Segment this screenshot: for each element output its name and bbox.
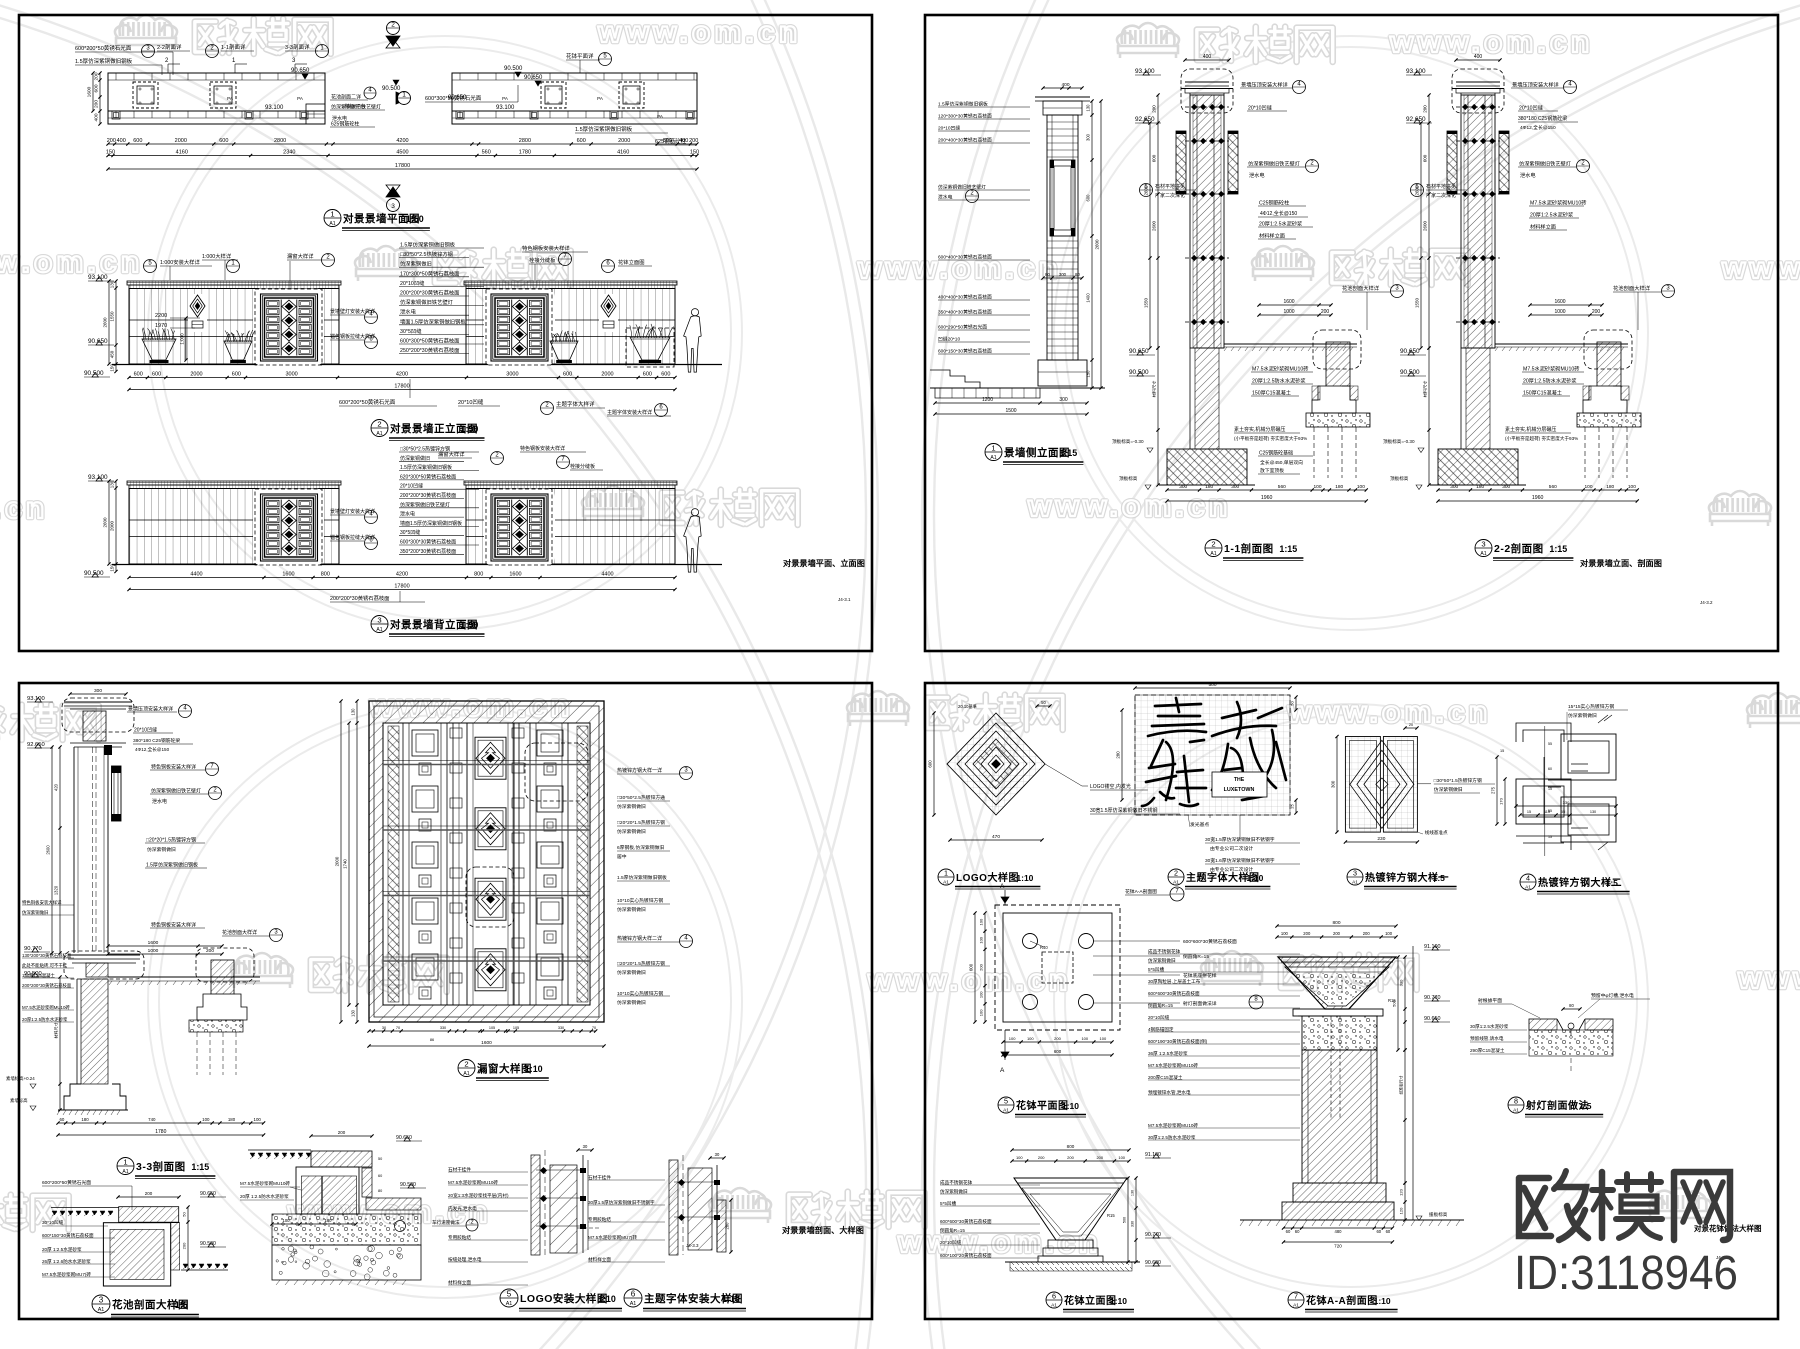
- svg-text:PA: PA: [657, 114, 663, 119]
- BL louver window outer frame: [369, 701, 604, 1022]
- BR flowerpot section A-A bottom dims: [1284, 1227, 1393, 1229]
- svg-text:C25钢筋砼柱: C25钢筋砼柱: [1259, 199, 1289, 207]
- BL 3-3 foundation stem: [81, 979, 108, 1084]
- svg-text:500: 500: [1208, 682, 1216, 688]
- svg-text:150: 150: [106, 150, 115, 156]
- svg-text:仿深紫铜做旧: 仿深紫铜做旧: [147, 846, 176, 853]
- section 1-1 planter top dims: [1259, 304, 1331, 306]
- TL back elevation left wall: [127, 481, 341, 485]
- svg-text:2600: 2600: [46, 845, 51, 855]
- svg-text:LUXETOWN: LUXETOWN: [1224, 787, 1255, 793]
- svg-text:顶板标高: 顶板标高: [1390, 475, 1409, 482]
- TL back elev window left: [253, 489, 324, 566]
- svg-text:600: 600: [577, 138, 586, 144]
- svg-text:130: 130: [110, 280, 115, 288]
- svg-text:80: 80: [378, 1189, 382, 1193]
- BR flowerpot elevation title: [1046, 1292, 1062, 1308]
- svg-text:200*200*30黄锈石荔枝面: 200*200*30黄锈石荔枝面: [330, 594, 389, 602]
- TR side elevation lamp panel: [1050, 160, 1075, 236]
- section 1-1 left vdims: [1157, 95, 1159, 348]
- TL plan title: [324, 210, 341, 227]
- TL front elev diamond motif right: [599, 294, 618, 332]
- svg-text:1780: 1780: [155, 1129, 166, 1135]
- TL back elevation right wall: [464, 481, 677, 485]
- svg-text:经准板尺寸: 经准板尺寸: [1399, 1075, 1404, 1094]
- TR section 1-1 title: [1205, 540, 1222, 557]
- svg-text:□30*50*2.5热镀锌方通: □30*50*2.5热镀锌方通: [617, 794, 665, 801]
- svg-text:4Φ12,全长@150: 4Φ12,全长@150: [1260, 210, 1297, 217]
- svg-text:50: 50: [182, 1212, 187, 1217]
- svg-text:墙面1.5厚仿深紫铜做旧钢板: 墙面1.5厚仿深紫铜做旧钢板: [400, 520, 462, 527]
- svg-text:6厚钢板,仿深紫铜做旧: 6厚钢板,仿深紫铜做旧: [617, 844, 664, 851]
- svg-text:100: 100: [1118, 1155, 1125, 1160]
- svg-text:A1: A1: [1480, 551, 1486, 557]
- TL plan dim row 1: [108, 143, 697, 145]
- svg-text:PA: PA: [227, 96, 233, 101]
- TL front elev person: [691, 309, 698, 316]
- svg-text:居中: 居中: [617, 853, 627, 860]
- svg-text:100: 100: [979, 991, 984, 998]
- svg-text:4500: 4500: [396, 150, 408, 156]
- svg-text:特色铜板安装大样详: 特色铜板安装大样详: [151, 764, 196, 771]
- BL theme font install title: [624, 1289, 642, 1307]
- svg-text:15: 15: [1548, 787, 1552, 791]
- svg-text:90.650: 90.650: [88, 338, 108, 345]
- svg-text:600: 600: [563, 372, 572, 378]
- svg-text:花池剖面大样详: 花池剖面大样详: [1342, 284, 1380, 292]
- section 2-2 top dim 400: [1456, 59, 1500, 61]
- BL 3-3 planter at right: [196, 948, 254, 982]
- svg-text:放下室顶板: 放下室顶板: [1260, 467, 1284, 474]
- TL back elev window right: [484, 489, 555, 566]
- svg-text:4200: 4200: [396, 372, 408, 378]
- svg-text:275: 275: [1491, 786, 1496, 794]
- TL plan section marker 1 arrow: [396, 92, 410, 104]
- TL front elev title: [371, 420, 388, 437]
- TR side elevation bottom dims: [935, 402, 1087, 404]
- BR theme font calligraphy cheng: [1222, 710, 1256, 718]
- svg-text:1:10: 1:10: [1246, 873, 1263, 883]
- watermark row D: [0, 705, 99, 740]
- svg-text:20厚1:2.5防水水泥砂浆: 20厚1:2.5防水水泥砂浆: [1252, 377, 1306, 385]
- svg-text:450: 450: [110, 350, 115, 358]
- svg-text:1:15: 1:15: [1549, 544, 1567, 554]
- svg-text:200: 200: [1333, 931, 1341, 936]
- svg-text:17800: 17800: [395, 163, 410, 169]
- svg-text:A1: A1: [463, 1071, 469, 1077]
- BR theme font calligraphy lu: [1155, 704, 1201, 706]
- svg-text:100: 100: [1357, 484, 1365, 490]
- svg-text:60: 60: [1295, 1229, 1300, 1234]
- svg-text:93.100: 93.100: [88, 474, 108, 481]
- svg-text:M7.5水泥砂浆砌MU10砖: M7.5水泥砂浆砌MU10砖: [1252, 365, 1309, 373]
- svg-text:330: 330: [1563, 800, 1570, 805]
- svg-text:120*300*30黄锈石荔枝面: 120*300*30黄锈石荔枝面: [938, 113, 992, 120]
- BL flowerbed section 3 drawing: [51, 1207, 119, 1209]
- svg-text:55: 55: [1561, 810, 1565, 814]
- svg-text:J4-3.3: J4-3.3: [686, 1243, 699, 1248]
- svg-text:A1: A1: [1525, 884, 1531, 890]
- BR spotlight dims and labels: [1563, 1008, 1580, 1010]
- svg-text:1550: 1550: [110, 311, 115, 322]
- svg-text:仿深紫铜做旧铁艺壁灯: 仿深紫铜做旧铁艺壁灯: [400, 298, 454, 306]
- BL louver title: [458, 1060, 475, 1077]
- svg-text:A: A: [1000, 883, 1005, 890]
- svg-text:600: 600: [928, 760, 933, 768]
- svg-text:对景景墙平面、立面图: 对景景墙平面、立面图: [783, 558, 865, 568]
- section 2-2 planter dashed outline: [1584, 330, 1632, 369]
- svg-text:射根據平面: 射根據平面: [1478, 997, 1502, 1004]
- svg-text:100: 100: [1009, 1036, 1016, 1041]
- svg-text:景墙压顶安装大样详: 景墙压顶安装大样详: [1512, 81, 1559, 89]
- panel border bottom-left: [19, 683, 872, 1319]
- section 2-2 planter top dims: [1530, 304, 1602, 306]
- svg-text:150: 150: [1086, 370, 1091, 378]
- section 2-2 cap plates: [1456, 81, 1500, 83]
- svg-text:200: 200: [94, 72, 100, 80]
- svg-text:100: 100: [1081, 1036, 1088, 1041]
- svg-text:50: 50: [1041, 700, 1046, 705]
- svg-text:170: 170: [1499, 797, 1504, 804]
- svg-text:2000: 2000: [190, 372, 202, 378]
- svg-text:400: 400: [1474, 54, 1483, 60]
- svg-text:290厚C15混凝土: 290厚C15混凝土: [1470, 1047, 1505, 1054]
- TR section 1-1 stone leader left: [1140, 184, 1153, 197]
- svg-text:4160: 4160: [617, 150, 629, 156]
- svg-text:200: 200: [1321, 309, 1330, 315]
- svg-text:7: 7: [1294, 1292, 1298, 1301]
- svg-text:20厚 1:2.5防水水泥砂浆: 20厚 1:2.5防水水泥砂浆: [240, 1193, 289, 1200]
- BR theme font detail box: [1135, 695, 1290, 815]
- svg-text:顶板标高=-0.30: 顶板标高=-0.30: [1383, 438, 1415, 445]
- svg-text:80: 80: [1045, 272, 1050, 277]
- svg-text:1600: 1600: [1283, 299, 1294, 305]
- svg-text:92.650: 92.650: [1135, 116, 1155, 123]
- svg-text:20厚1:2.5水泥砂浆: 20厚1:2.5水泥砂浆: [1259, 220, 1302, 228]
- svg-text:600: 600: [232, 372, 241, 378]
- svg-text:600: 600: [219, 138, 228, 144]
- svg-text:180: 180: [1205, 484, 1213, 490]
- BL louver left motif chain 2: [452, 723, 454, 1005]
- svg-text:92.650: 92.650: [1406, 116, 1426, 123]
- svg-text:115: 115: [1544, 810, 1550, 814]
- TL plan right wall pilaster marks: [456, 111, 464, 119]
- svg-text:600: 600: [969, 963, 974, 971]
- BL 3-3 footing: [64, 1084, 126, 1110]
- svg-text:1.5厚仿深紫铜做旧钢板: 1.5厚仿深紫铜做旧钢板: [75, 57, 133, 65]
- svg-text:全长@450,单层双向: 全长@450,单层双向: [1260, 459, 1303, 466]
- BR big watermark logo mo: [1599, 1172, 1606, 1238]
- svg-text:1970: 1970: [155, 323, 167, 329]
- svg-text:100: 100: [979, 918, 984, 925]
- svg-text:5: 5: [1004, 1097, 1008, 1106]
- svg-text:对景景墙立面、剖面图: 对景景墙立面、剖面图: [1580, 558, 1662, 568]
- BL flowerbed section 4 labels: [311, 1135, 372, 1137]
- svg-text:主题字体大样详: 主题字体大样详: [556, 400, 595, 408]
- svg-text:1500: 1500: [1005, 408, 1016, 414]
- svg-text:3: 3: [99, 1296, 104, 1305]
- svg-text:600*400*30黄锈石荔枝面: 600*400*30黄锈石荔枝面: [938, 254, 992, 261]
- BL 3-3 section cap: [62, 698, 134, 732]
- svg-text:180: 180: [81, 1117, 89, 1122]
- svg-text:泄水电: 泄水电: [1249, 171, 1265, 179]
- svg-text:www.om.cn: www.om.cn: [1737, 962, 1800, 995]
- svg-text:仿深紫铜做旧铁艺壁灯: 仿深紫铜做旧铁艺壁灯: [151, 788, 201, 795]
- svg-text:1: 1: [123, 1158, 127, 1167]
- svg-text:100: 100: [1100, 1036, 1107, 1041]
- svg-text:480: 480: [1335, 1229, 1343, 1234]
- svg-text:1:000安装大样详: 1:000安装大样详: [160, 258, 200, 266]
- section 1-1 ground level line: [1224, 343, 1357, 345]
- svg-text:J4-3.2: J4-3.2: [1700, 600, 1713, 605]
- svg-text:600: 600: [1152, 154, 1157, 162]
- section 2-2 ground level line: [1495, 343, 1628, 345]
- TL front elev pots: [142, 339, 176, 360]
- BR flowerpot plan dims: [1003, 1041, 1112, 1043]
- svg-text:280: 280: [1116, 751, 1121, 759]
- svg-text:特色铜板安装大样详: 特色铜板安装大样详: [151, 922, 196, 929]
- BR flowerpot section A-A ground: [1240, 1219, 1464, 1221]
- svg-text:2600: 2600: [1095, 239, 1100, 250]
- svg-text:20厚1:2.5水泥砂浆: 20厚1:2.5水泥砂浆: [1530, 211, 1573, 219]
- svg-text:30厚1:2.5水泥砂浆: 30厚1:2.5水泥砂浆: [1470, 1023, 1509, 1030]
- svg-text:6: 6: [1052, 1292, 1056, 1301]
- BR flowerpot plan title: [998, 1097, 1014, 1113]
- svg-text:仿深紫铜做旧: 仿深紫铜做旧: [400, 455, 430, 462]
- svg-text:100: 100: [1016, 1155, 1023, 1160]
- svg-text:1:15: 1:15: [1279, 544, 1297, 554]
- svg-text:200: 200: [107, 138, 116, 144]
- svg-text:200: 200: [145, 1191, 153, 1196]
- BR big watermark logo wang: [1674, 1172, 1730, 1240]
- svg-text:1.5厚仿深紫铜做旧钢板: 1.5厚仿深紫铜做旧钢板: [400, 464, 452, 471]
- svg-text:1.5厚仿深紫铜做旧钢板: 1.5厚仿深紫铜做旧钢板: [938, 101, 988, 108]
- BL flowerbed section 4 drawing: [248, 1149, 311, 1151]
- BL logo install title: [500, 1289, 518, 1307]
- section 2-2 planter section: [1597, 342, 1621, 386]
- svg-text:90.650: 90.650: [1400, 348, 1420, 355]
- section 2-2 shaft: [1461, 95, 1495, 348]
- svg-text:600: 600: [152, 372, 161, 378]
- svg-text:仿深紫铜做旧铁艺壁灯: 仿深紫铜做旧铁艺壁灯: [938, 184, 986, 191]
- svg-text:560: 560: [482, 150, 491, 156]
- svg-text:100: 100: [1628, 484, 1636, 490]
- svg-text:A1: A1: [1352, 879, 1358, 885]
- svg-text:2800: 2800: [519, 138, 531, 144]
- svg-text:180: 180: [325, 1218, 333, 1223]
- BL theme font install detail: [669, 1160, 678, 1255]
- svg-text:1:10: 1:10: [1062, 1101, 1079, 1111]
- svg-text:厂家二次深化: 厂家二次深化: [1426, 192, 1456, 199]
- section 1-1 planter piles: [1313, 427, 1315, 478]
- svg-text:300: 300: [1179, 484, 1187, 490]
- BR LOGO detail dims: [950, 839, 1042, 841]
- svg-text:泄水电: 泄水电: [1520, 171, 1536, 179]
- svg-text:1:50: 1:50: [461, 620, 479, 630]
- BL louver center dashed callout: [466, 867, 514, 927]
- svg-text:漏窗大样图: 漏窗大样图: [477, 1062, 532, 1075]
- svg-text:素墙标高: 素墙标高: [10, 1097, 28, 1104]
- svg-text:100: 100: [202, 1117, 210, 1122]
- svg-text:顶板标高=-0.30: 顶板标高=-0.30: [1112, 438, 1144, 445]
- svg-text:200: 200: [94, 100, 100, 108]
- BR square steel detail 2 title: [1520, 874, 1536, 890]
- BR flowerpot plan leaders: [1093, 940, 1180, 942]
- svg-text:由专业公司二次设计: 由专业公司二次设计: [1210, 866, 1253, 873]
- svg-text:1:10: 1:10: [1110, 1296, 1127, 1306]
- svg-text:30*5凹缝: 30*5凹缝: [400, 529, 420, 536]
- svg-text:www.om.cn: www.om.cn: [897, 1226, 1101, 1259]
- svg-text:470: 470: [992, 834, 1000, 840]
- svg-text:A1: A1: [1003, 1107, 1009, 1113]
- section 1-1 bottom dims: [1167, 489, 1366, 491]
- svg-text:泄水电: 泄水电: [938, 194, 953, 201]
- BR flowerpot section A-A upper box: [1302, 1016, 1377, 1050]
- svg-text:□20*20*1.5热镀锌方钢: □20*20*1.5热镀锌方钢: [146, 837, 196, 844]
- svg-text:420: 420: [54, 783, 59, 791]
- svg-text:90.500: 90.500: [504, 66, 523, 72]
- svg-text:PA: PA: [597, 96, 603, 101]
- svg-text:400: 400: [94, 113, 100, 121]
- svg-text:2200: 2200: [155, 313, 167, 319]
- TL front elevation ground line: [112, 364, 722, 366]
- svg-text:200: 200: [1363, 931, 1371, 936]
- section 1-1 planter dashed outline: [1313, 330, 1361, 369]
- svg-text:30: 30: [583, 1144, 588, 1149]
- svg-text:620*300*50黄锈石荔枝面: 620*300*50黄锈石荔枝面: [400, 473, 456, 480]
- svg-text:A1: A1: [506, 1301, 513, 1307]
- section 1-1 shaft ties: [1185, 106, 1229, 108]
- svg-text:4400: 4400: [601, 572, 613, 578]
- svg-text:400: 400: [679, 138, 688, 144]
- svg-text:1960: 1960: [1532, 495, 1544, 501]
- svg-text:泄水电: 泄水电: [400, 511, 415, 518]
- svg-text:15*15实心热镀锌方钢: 15*15实心热镀锌方钢: [1568, 703, 1614, 710]
- svg-text:90.500: 90.500: [84, 570, 104, 577]
- svg-text:600: 600: [663, 138, 672, 144]
- svg-text:15: 15: [1500, 749, 1504, 753]
- svg-text:2: 2: [1174, 869, 1178, 878]
- svg-text:花钵立面图: 花钵立面图: [618, 258, 645, 266]
- svg-text:2: 2: [1211, 540, 1215, 549]
- BL 3-3 ground at right: [108, 976, 260, 978]
- svg-text:2600: 2600: [1152, 220, 1157, 231]
- BL 3-3 bottom dims: [58, 1122, 264, 1124]
- svg-text:100: 100: [254, 1117, 262, 1122]
- svg-text:120: 120: [1399, 1188, 1404, 1195]
- BR LOGO detail leaders: [1045, 764, 1082, 786]
- svg-text:130: 130: [1131, 1190, 1135, 1196]
- svg-text:C25钢筋砼基础: C25钢筋砼基础: [1259, 450, 1293, 457]
- svg-text:600: 600: [643, 372, 652, 378]
- svg-text:石材平地拼见: 石材平地拼见: [1426, 183, 1456, 190]
- svg-text:材料尺寸: 材料尺寸: [1151, 381, 1158, 398]
- svg-text:100: 100: [1027, 1036, 1034, 1041]
- svg-text:130: 130: [351, 1009, 356, 1017]
- svg-text:230: 230: [1377, 836, 1385, 842]
- section 2-2 planter piles: [1584, 427, 1586, 478]
- svg-text:漏窗大样详: 漏窗大样详: [438, 450, 465, 458]
- svg-text:4Φ12,全长@150: 4Φ12,全长@150: [1520, 124, 1556, 131]
- BR flowerpot section A-A shaft: [1302, 1050, 1377, 1183]
- svg-text:1960: 1960: [1261, 495, 1273, 501]
- BR square steel detail 2 break line: [1598, 715, 1612, 723]
- svg-text:仿深紫铜做旧铁艺壁灯: 仿深紫铜做旧铁艺壁灯: [1519, 160, 1571, 168]
- svg-text:2000: 2000: [618, 138, 630, 144]
- TL plan section marker 2 top: [387, 22, 400, 35]
- svg-text:A1: A1: [1051, 1302, 1057, 1308]
- svg-text:1: 1: [330, 210, 334, 219]
- svg-text:□30*50*1.5热镀锌方钢: □30*50*1.5热镀锌方钢: [1434, 777, 1482, 784]
- svg-text:800: 800: [474, 572, 483, 578]
- svg-text:1:5: 1:5: [175, 1300, 188, 1310]
- svg-text:105: 105: [489, 1026, 495, 1030]
- svg-text:200: 200: [1423, 105, 1428, 113]
- TL plan left wall strip: [108, 73, 325, 124]
- svg-text:250*200*30黄锈石荔枝面: 250*200*30黄锈石荔枝面: [400, 346, 459, 354]
- svg-text:锚色钢板拉缝大样详: 锚色钢板拉缝大样详: [330, 333, 375, 340]
- svg-text:栓接分缝板: 栓接分缝板: [529, 256, 556, 264]
- TL plan callout 4: [364, 87, 376, 99]
- svg-text:90.500: 90.500: [1400, 369, 1420, 376]
- svg-text:100: 100: [1313, 484, 1321, 490]
- svg-text:300: 300: [1231, 484, 1239, 490]
- svg-text:20厚1:2.5防水水泥砂浆: 20厚1:2.5防水水泥砂浆: [1523, 377, 1577, 385]
- BR flowerpot elevation base: [1048, 1240, 1093, 1248]
- BR flowerpot section A-A right levels: [1412, 946, 1414, 1220]
- svg-text:仿深紫铜做旧: 仿深紫铜做旧: [1568, 712, 1597, 719]
- svg-text:200: 200: [979, 963, 984, 970]
- svg-text:1.5厚仿深紫铜做旧钢板: 1.5厚仿深紫铜做旧钢板: [575, 125, 633, 133]
- svg-text:600*200*50黄锈石光面: 600*200*50黄锈石光面: [339, 398, 396, 406]
- svg-text:M7.5水泥砂浆砌MU10砖: M7.5水泥砂浆砌MU10砖: [1530, 199, 1587, 207]
- svg-text:17800: 17800: [394, 384, 409, 390]
- svg-text:400: 400: [117, 138, 126, 144]
- svg-text:300: 300: [1059, 397, 1068, 403]
- BL logo install detail: [531, 1155, 540, 1255]
- svg-text:仿深紫铜做旧: 仿深紫铜做旧: [617, 828, 646, 835]
- svg-text:330: 330: [558, 1026, 564, 1030]
- svg-text:1000: 1000: [1283, 309, 1294, 315]
- svg-text:www.om.cn: www.om.cn: [0, 492, 48, 525]
- svg-text:1: 1: [991, 444, 995, 453]
- svg-text:200*200*30黄锈石荔枝面: 200*200*30黄锈石荔枝面: [400, 492, 456, 499]
- svg-text:93.100: 93.100: [88, 274, 108, 281]
- svg-text:A: A: [1000, 1067, 1005, 1074]
- svg-text:560: 560: [1278, 484, 1286, 490]
- svg-text:R15: R15: [1107, 1213, 1115, 1218]
- svg-text:1600: 1600: [1554, 299, 1565, 305]
- BR flowerpot elevation bowl: [1014, 1178, 1127, 1240]
- svg-text:www.om.cn: www.om.cn: [597, 16, 801, 49]
- TL front elev window callout leaders: [365, 311, 378, 324]
- svg-text:仿深紫铜做旧: 仿深紫铜做旧: [1434, 786, 1463, 793]
- svg-text:30: 30: [382, 1026, 386, 1030]
- svg-text:1320: 1320: [54, 885, 59, 895]
- svg-text:720: 720: [1334, 1244, 1342, 1249]
- section 2-2 bottom dims: [1438, 489, 1637, 491]
- section 1-1 below-ground shaft: [1195, 348, 1219, 449]
- svg-text:30*5凹缝: 30*5凹缝: [400, 327, 422, 335]
- svg-text:105: 105: [513, 1026, 519, 1030]
- svg-text:4: 4: [1526, 874, 1530, 883]
- svg-text:栓接分缝板: 栓接分缝板: [570, 463, 595, 470]
- svg-text:400*400*30黄锈石荔枝面: 400*400*30黄锈石荔枝面: [938, 294, 992, 301]
- svg-text:景墙压顶安装大样详: 景墙压顶安装大样详: [128, 706, 173, 713]
- svg-text:□20*20*1.5热镀锌方钢: □20*20*1.5热镀锌方钢: [617, 819, 665, 826]
- svg-text:A1: A1: [98, 1307, 105, 1313]
- svg-text:500: 500: [1392, 999, 1397, 1006]
